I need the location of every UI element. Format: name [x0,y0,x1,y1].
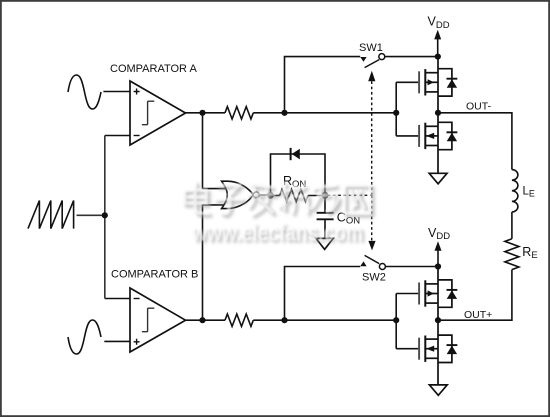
watermark chinese characters row [184,182,373,217]
Q3 drain-source rail [437,267,439,321]
node VDD bottom [435,263,441,269]
Q2 source stub [425,145,438,147]
Q4 drain-source rail [437,320,439,385]
diode D1 triangle [292,149,300,160]
node VDD top [435,54,441,60]
wire comparator A - input [105,135,130,137]
svg-text:SW1: SW1 [359,42,383,54]
wire sawtooth to node [77,214,105,216]
node OUT+ junction [435,317,441,323]
Q1 drain-source rail [437,57,439,113]
node RON CON junction [322,192,329,199]
wire inductor to RE [511,212,513,239]
node SW2 branch [281,317,287,323]
Q3 drain stub [425,283,438,285]
Q1 drain stub [425,72,438,74]
Q3 channel [424,280,426,306]
VDD supply bottom arrow [435,241,442,251]
Q1 body diode cathode bar [447,78,458,80]
wire comparator B output [186,319,226,321]
Q2 drain-source rail [437,113,439,174]
svg-text:COMPARATOR A: COMPARATOR A [110,63,197,75]
wire dashed control line to SW1 [371,81,373,196]
sine wave source B [68,320,101,354]
VDD supply top arrow [434,30,441,40]
Q4 body diode branch [438,335,452,362]
NOR gate U1 [222,181,254,208]
node gate bus top [393,110,399,116]
Q2 body diode branch [438,122,452,149]
resistor gate drive A [225,107,253,119]
comparator A hysteresis symbol [142,101,154,125]
op-amp comparator A [130,81,186,145]
comparator A + sign [134,89,140,95]
Q4 body diode cathode bar [447,344,458,346]
arrow control to SW1 [368,71,375,82]
wire node B up to NOR input [203,205,226,320]
Q3 source stub [425,302,438,304]
Q1 body stub with arrow [425,81,438,83]
Q3 body diode triangle [447,290,457,299]
diode D1 cathode bar [290,148,292,160]
wire SW1 to VDD node [385,56,438,58]
sawtooth wave source [28,201,74,229]
node comparator B output [199,317,205,323]
Q2 gate bar [418,125,420,147]
wire resistor A to gate bus [253,112,396,114]
svg-text:SW2: SW2 [362,272,386,284]
ground bottom pair [429,385,447,395]
junction node sawtooth [102,212,108,218]
wire node to CON [324,195,326,212]
wire resistor B to gate bus [253,319,396,321]
Q4 body stub with arrow [425,348,438,350]
Q4 source stub [425,357,438,359]
wire inverting input bus [104,136,106,299]
Q3 body diode cathode bar [447,289,458,291]
wire CON to ground [324,220,326,239]
node SW1 branch [281,110,287,116]
comparator B - sign [134,298,140,300]
switch SW2 pole arrowhead [360,261,366,266]
ground CON [316,238,333,249]
wire node A down to NOR input [203,113,226,189]
sine wave source A [68,75,101,109]
wire sine B to comparator B + input [104,340,130,342]
Q3 gate bar [418,283,420,305]
wire SW2 to VDD node [386,266,439,268]
NOR gate output bubble [253,192,259,198]
Q4 gate bar [418,338,420,360]
inductor LE [512,170,518,212]
svg-text:OUT+: OUT+ [464,309,492,321]
wire RE to OUT+ [438,270,512,321]
comparator B + sign [134,339,140,345]
resistor RON [280,189,308,201]
Q1 channel [424,69,426,95]
switch SW1 pole arrowhead [360,57,366,62]
switch SW1 contact circle [379,54,385,60]
wire node up to SW1 [285,57,361,113]
Q1 gate bar [418,71,420,93]
Q1 body diode branch [438,69,452,96]
resistor RE [505,239,519,270]
wire sine A to comparator A + input [103,91,130,93]
wire comparator A output [186,112,226,114]
Q2 channel [424,123,426,149]
Q1 source stub [425,91,438,93]
svg-text:COMPARATOR B: COMPARATOR B [111,269,198,281]
watermark www.elecfans.com row [191,220,365,250]
svg-text:OUT-: OUT- [466,100,492,112]
node NOR output [267,192,274,199]
arrow control to SW2 [368,241,375,251]
switch SW2 contact circle [379,264,385,270]
svg-text:www.elecfans.com: www.elecfans.com [191,220,363,247]
diode D1 bypass branch [271,154,326,195]
Q2 body diode triangle [447,133,457,142]
Q2 drain stub [425,125,438,127]
node gate bus bottom [393,317,399,323]
comparator B hysteresis symbol [142,308,154,332]
Q3 body diode branch [438,280,452,307]
wire comparator B - input [105,298,130,300]
switch SW1 arm [365,60,380,68]
resistor gate drive B [225,314,253,326]
capacitor CON bottom plate [317,218,334,220]
wire gate bus bottom pair [396,294,418,349]
wire gate bus top pair [396,82,418,136]
Q2 body stub with arrow [425,135,438,137]
Q4 body diode triangle [447,346,457,355]
op-amp comparator B [130,288,186,352]
Q1 body diode triangle [447,79,457,88]
comparator A - sign [134,135,140,137]
node comparator A output [199,110,205,116]
Q4 drain stub [425,338,438,340]
wire node up to SW2 [285,267,361,321]
ground top pair [429,173,447,184]
wire dashed control line horizontal [328,194,372,196]
capacitor CON top plate [317,212,334,214]
switch SW2 arm [365,255,380,263]
wire dashed control line to SW2 [371,195,373,241]
wire NOR output to node [259,194,270,196]
wire OUT- to inductor [438,113,512,170]
node OUT- junction [435,110,441,116]
Q4 channel [424,336,426,362]
Q2 body diode cathode bar [447,131,458,133]
Q3 body stub with arrow [425,293,438,295]
